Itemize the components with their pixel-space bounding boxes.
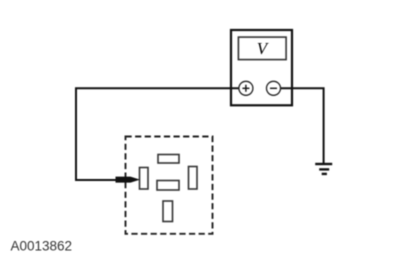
svg-text:A0013862: A0013862 (11, 239, 73, 254)
